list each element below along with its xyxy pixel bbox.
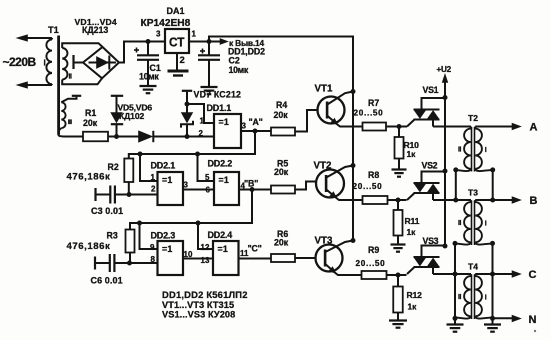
transistor VT2 <box>314 161 345 198</box>
wire bus VD5 to VD6 <box>117 136 139 138</box>
node VD7 branch <box>185 102 190 107</box>
DA1 pin2 stub <box>176 53 178 70</box>
node C1 top <box>146 39 151 44</box>
VT2 collector wire <box>326 166 353 178</box>
node R3/C4 <box>127 261 132 266</box>
wire to DD2.1 pin1 <box>140 154 158 181</box>
svg-text:20к: 20к <box>274 238 289 248</box>
ground at T4 left <box>447 318 464 331</box>
svg-text:1к: 1к <box>408 302 418 312</box>
XOR gate DD1.1 <box>207 103 242 148</box>
node T4 left bottom <box>453 316 458 321</box>
svg-text:6: 6 <box>206 186 211 195</box>
pin 1 label <box>200 117 205 126</box>
svg-text:VT1...VT3 КТ315: VT1...VT3 КТ315 <box>162 300 234 310</box>
node T4 right bottom <box>490 316 495 321</box>
node VD5/bus <box>114 134 119 139</box>
svg-text:VS3: VS3 <box>423 236 439 246</box>
transformer T4 <box>456 262 493 320</box>
wire VS2 MT1 to T3 <box>433 199 471 201</box>
svg-text:R3: R3 <box>107 231 118 241</box>
ground at R12 <box>389 321 407 328</box>
node C label <box>248 244 262 254</box>
resistor R7 <box>354 98 387 131</box>
svg-text:II: II <box>458 294 462 301</box>
svg-text:Т4: Т4 <box>468 262 478 272</box>
svg-text:=1: =1 <box>162 175 172 185</box>
wire R7 to gate node <box>386 126 399 128</box>
svg-text:10мк: 10мк <box>139 72 159 82</box>
svg-text:VT2: VT2 <box>314 161 333 172</box>
svg-text:VS1...VS3 КУ208: VS1...VS3 КУ208 <box>162 309 235 319</box>
resistor R9 <box>356 245 387 279</box>
wire DD2.2 output <box>239 189 252 191</box>
output A <box>475 122 537 134</box>
wire to DD2.4 pin12 <box>198 223 213 249</box>
svg-text:R4: R4 <box>276 100 287 110</box>
AC input wire lower with arrow <box>17 82 53 88</box>
resistor R2 <box>67 159 134 183</box>
triac VS1 <box>407 85 445 127</box>
resistor R10 <box>395 127 420 170</box>
pin 2 label <box>180 55 185 66</box>
capacitor C1 <box>134 42 159 87</box>
svg-text:~220В: ~220В <box>3 55 37 69</box>
pin 1 label <box>151 173 156 182</box>
node R9/R12/gate <box>396 273 401 278</box>
svg-text:I: I <box>485 295 487 302</box>
svg-text:3: 3 <box>242 122 247 131</box>
node T3 right drop/C line <box>490 272 495 277</box>
wire to DD2.3 pin9 <box>140 223 158 249</box>
resistor R5 <box>252 159 295 194</box>
pin 3 label <box>242 122 247 131</box>
label VD7 KC212 <box>194 90 242 100</box>
parts list line 1 <box>162 289 248 300</box>
svg-text:20...50: 20...50 <box>354 109 384 118</box>
node A <box>249 117 263 134</box>
svg-text:1: 1 <box>192 30 197 39</box>
label VD5,VD6 KD102 <box>118 103 153 122</box>
wire C3 node to DD2.1 pin2 <box>129 194 158 196</box>
svg-text:R2: R2 <box>108 162 119 172</box>
supply arrow to DD1,DD2 <box>209 38 265 56</box>
pin 8 label <box>151 255 156 264</box>
capacitor C3 <box>91 186 129 217</box>
wire VS1 MT1 to T2 <box>433 126 471 128</box>
svg-text:R11: R11 <box>405 216 420 226</box>
label C1 <box>139 63 161 82</box>
svg-text:С6 0.01: С6 0.01 <box>91 276 123 286</box>
wire bridge output to rail <box>119 42 165 63</box>
svg-text:А: А <box>530 122 538 134</box>
capacitor C2 <box>198 42 220 88</box>
svg-text:DD2.1: DD2.1 <box>151 161 176 171</box>
svg-text:R8: R8 <box>368 170 379 180</box>
label III (winding) <box>68 119 72 126</box>
node T3 right bottom <box>490 241 495 246</box>
wire node B down to row C line <box>130 190 252 230</box>
winding III bottom lead to bus <box>58 128 83 136</box>
svg-text:=1: =1 <box>162 244 172 254</box>
voltage regulator DA1 labels <box>141 6 191 29</box>
svg-text:20...50: 20...50 <box>353 182 383 191</box>
svg-text:II: II <box>69 74 73 81</box>
transistor VT1 <box>315 84 345 124</box>
node T2 right drop/B line <box>490 198 495 203</box>
svg-text:Т3: Т3 <box>468 188 478 198</box>
svg-text:20к: 20к <box>274 110 289 120</box>
svg-text:476,186к: 476,186к <box>67 172 111 183</box>
svg-text:20...50: 20...50 <box>356 259 386 268</box>
stray mark <box>534 330 536 332</box>
node B <box>244 179 258 193</box>
supply +U2 arrow <box>437 65 452 98</box>
node VT2 collector <box>351 163 356 168</box>
svg-text:N: N <box>529 314 537 326</box>
svg-text:1: 1 <box>151 173 156 182</box>
svg-text:R9: R9 <box>368 245 379 255</box>
VT3 emitter wire <box>325 264 361 275</box>
svg-text:С: С <box>529 269 537 281</box>
svg-text:DD2.3: DD2.3 <box>151 231 176 241</box>
svg-text:1к: 1к <box>407 149 417 159</box>
svg-text:КД102: КД102 <box>119 111 145 121</box>
svg-text:DD1,DD2: DD1,DD2 <box>228 46 265 56</box>
pin 1 label <box>192 30 197 39</box>
svg-text:20к: 20к <box>274 167 289 177</box>
VT1 collector wire <box>327 92 353 105</box>
svg-text:VS1: VS1 <box>423 85 439 95</box>
node pin5 drop <box>195 152 200 157</box>
wire T3 left drop <box>454 243 456 318</box>
winding III top lead with terminal bar <box>61 96 81 103</box>
transformer T1 winding III <box>61 102 65 128</box>
node T3 drop/C line <box>453 272 458 277</box>
svg-text:20к: 20к <box>83 118 98 128</box>
node T2 drop/B line <box>453 198 458 203</box>
node R2/C3 <box>127 192 132 197</box>
svg-text:DD2.4: DD2.4 <box>208 230 233 240</box>
resistor R11 <box>394 200 420 245</box>
pin 4 label <box>241 182 246 191</box>
VT3 collector wire <box>325 241 353 253</box>
svg-text:+U2: +U2 <box>437 65 452 74</box>
transformer T1 primary winding I <box>46 38 52 85</box>
svg-text:13: 13 <box>201 256 210 265</box>
ground at R10 <box>392 170 407 177</box>
label II (winding) <box>69 74 73 81</box>
diode bridge VD1-VD4 labels <box>75 17 117 35</box>
triac VS3 <box>407 236 445 274</box>
node VS2 rail <box>443 169 448 174</box>
resistor R4 <box>255 100 295 136</box>
wire R3 to C4 node <box>129 253 131 264</box>
triac VS2 <box>407 161 445 201</box>
resistor R3 <box>67 230 135 253</box>
wire R1 to VD5 node <box>108 136 117 138</box>
svg-text:Т2: Т2 <box>468 113 478 123</box>
svg-text:"А": "А" <box>249 117 263 127</box>
terminal bar at bridge left vertex <box>74 55 84 69</box>
svg-text:DD1,DD2 К561ЛП2: DD1,DD2 К561ЛП2 <box>162 289 248 300</box>
VT1 emitter wire <box>327 116 362 127</box>
svg-text:II: II <box>458 147 462 154</box>
svg-text:=1: =1 <box>219 175 229 185</box>
wire R8 to gate node <box>388 199 399 201</box>
svg-text:5: 5 <box>205 173 210 182</box>
svg-text:=1: =1 <box>218 244 228 254</box>
output B <box>475 195 537 207</box>
node T2 right bottom <box>490 167 495 172</box>
svg-text:C2: C2 <box>229 56 240 66</box>
svg-text:3: 3 <box>156 30 161 39</box>
node VS1 rail <box>443 95 448 100</box>
wire phase rail lower <box>444 171 446 246</box>
wire T3 right drop <box>492 243 494 318</box>
node pin12 drop <box>196 221 201 226</box>
wire R4 to VT1 base <box>295 110 318 132</box>
parts list line 2 <box>162 300 234 310</box>
wire T1-II bottom to bridge bottom <box>62 78 102 84</box>
svg-text:КД213: КД213 <box>82 25 108 35</box>
output N <box>493 314 537 326</box>
pin 2 label <box>199 129 204 138</box>
wire to DD2.2 pin5 <box>198 154 215 181</box>
ground at T4 right <box>484 318 501 331</box>
svg-text:2: 2 <box>199 129 204 138</box>
pin 11 label <box>240 249 249 258</box>
svg-text:1: 1 <box>200 117 205 126</box>
wire R2 to C3 node <box>128 182 130 195</box>
transformer T1 label <box>48 25 59 35</box>
node C2 top <box>207 39 212 44</box>
node R8/R11/gate <box>396 198 401 203</box>
voltage regulator DA1 box <box>165 29 189 53</box>
wire VS3 MT1 to T4 <box>433 273 471 275</box>
svg-text:III: III <box>68 119 72 126</box>
svg-text:1к: 1к <box>407 227 417 237</box>
pin 12 label <box>201 243 210 252</box>
svg-text:VD7 КС212: VD7 КС212 <box>194 90 242 100</box>
wire R9 to gate node <box>387 274 399 276</box>
svg-text:"С": "С" <box>248 244 262 254</box>
svg-text:R12: R12 <box>407 290 423 300</box>
svg-text:С3 0.01: С3 0.01 <box>91 206 123 216</box>
diode bridge VD1-VD4 diamond <box>83 47 119 78</box>
wire collector rail <box>352 92 354 241</box>
parts list line 3 <box>162 309 235 319</box>
ground at R11 <box>391 245 406 252</box>
resistor R1 <box>83 108 108 141</box>
pin 5 label <box>205 173 210 182</box>
XOR gate DD2.4 <box>208 230 239 275</box>
svg-text:VT3: VT3 <box>315 236 334 247</box>
svg-text:10мк: 10мк <box>229 65 249 75</box>
svg-text:2: 2 <box>151 185 156 194</box>
svg-text:VS2: VS2 <box>422 161 438 171</box>
wire DD2.4 output <box>239 258 272 260</box>
wire DD2.3 out to DD2.4 pin13 <box>183 258 213 260</box>
svg-text:8: 8 <box>151 255 156 264</box>
svg-text:R1: R1 <box>85 108 96 118</box>
wire gate VS2 <box>398 199 407 201</box>
wire DD2.1 out to DD2.2 pin6 <box>183 189 214 191</box>
node VT3 collector <box>351 238 356 243</box>
svg-text:R7: R7 <box>368 98 379 108</box>
label C2 <box>229 56 249 76</box>
pin 6 label <box>206 186 211 195</box>
transformer T3 <box>456 188 493 246</box>
node pin9 drop <box>137 221 142 226</box>
zener VD7 <box>181 91 193 137</box>
wire phase rail upper <box>444 98 446 172</box>
wire bus VD6 to DD1.1 pin2 <box>153 136 214 138</box>
svg-text:В: В <box>530 195 538 207</box>
svg-text:I: I <box>44 59 46 68</box>
svg-text:II: II <box>458 220 462 227</box>
svg-text:DA1: DA1 <box>167 6 185 16</box>
wire DD1.1 output <box>241 130 255 132</box>
node VD7/bus <box>185 134 190 139</box>
transistor VT3 <box>315 236 343 272</box>
pin 3 label <box>184 181 189 190</box>
pin 10 label <box>184 250 193 259</box>
node VS3 rail <box>443 244 448 249</box>
wire gate VS3 <box>398 274 407 276</box>
XOR gate DD2.1 <box>151 161 184 206</box>
wire T1-II top to bridge top <box>62 43 102 48</box>
svg-text:12: 12 <box>201 243 210 252</box>
node T3 left bottom <box>453 241 458 246</box>
wire R6 to VT3 base <box>295 257 316 259</box>
svg-text:2: 2 <box>180 55 185 66</box>
wire C4 node to DD2.3 pin8 <box>130 262 158 264</box>
resistor R6 <box>271 229 295 262</box>
node T2 left bottom <box>453 167 458 172</box>
output C <box>475 269 536 281</box>
wire top rail <box>209 37 353 92</box>
svg-text:I: I <box>485 221 487 228</box>
resistor R8 <box>353 170 388 204</box>
transformer T1 winding II <box>62 48 67 80</box>
wire T2 right drop <box>492 170 494 200</box>
diode VD5 <box>111 96 123 137</box>
capacitor C6 <box>91 254 130 286</box>
label I (primary) <box>44 59 46 68</box>
VT2 emitter wire <box>326 190 362 201</box>
pin 13 label <box>201 256 210 265</box>
wire T2 left drop <box>455 170 457 200</box>
ground at C2 <box>201 87 218 94</box>
label ~220V <box>3 55 37 69</box>
transformer T2 <box>456 113 493 172</box>
node R7/R10/gate <box>397 124 402 129</box>
svg-text:"В": "В" <box>244 179 258 189</box>
diode VD6 <box>139 131 154 142</box>
ground at DA1 <box>168 71 189 76</box>
pin 9 label <box>150 243 155 252</box>
svg-text:476,186к: 476,186к <box>67 241 111 252</box>
XOR gate DD2.2 <box>208 159 240 206</box>
svg-text:3: 3 <box>184 181 189 190</box>
svg-text:=1: =1 <box>219 117 229 127</box>
transformer T1 core <box>57 36 60 135</box>
svg-text:9: 9 <box>150 243 155 252</box>
svg-text:КР142ЕН8: КР142ЕН8 <box>141 18 191 29</box>
wire R5 to VT2 base <box>295 182 316 190</box>
svg-text:DD1.1: DD1.1 <box>207 103 232 113</box>
node pin1 drop <box>138 152 143 157</box>
resistor R12 <box>393 275 422 321</box>
node VT1 collector <box>351 89 356 94</box>
XOR gate DD2.3 <box>151 231 184 276</box>
svg-text:DD2.2: DD2.2 <box>208 159 233 169</box>
wire DA1 output <box>189 41 209 43</box>
svg-text:Т1: Т1 <box>48 25 59 35</box>
svg-text:VT1: VT1 <box>315 84 334 95</box>
wire node A down to row B line <box>129 131 255 159</box>
pin 2 label <box>151 185 156 194</box>
AC input wire upper with arrow <box>17 35 53 41</box>
svg-text:СТ: СТ <box>169 35 185 50</box>
svg-text:I: I <box>485 147 487 154</box>
wire gate VS1 <box>399 126 407 128</box>
ground at C1 <box>140 86 157 93</box>
wire VD7 to DD1.1 pin1 <box>187 104 214 123</box>
pin 3 label <box>156 30 161 39</box>
